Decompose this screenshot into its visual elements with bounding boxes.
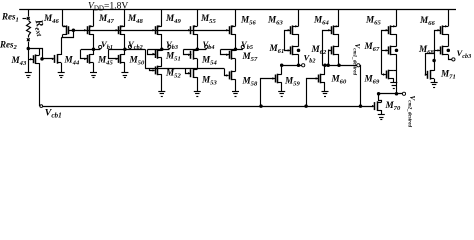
wire M52 gate dogleg	[150, 69, 155, 71]
transistor M58	[229, 71, 231, 79]
transistor M68	[440, 46, 442, 54]
ground M50	[121, 72, 128, 74]
wire M54 drain	[197, 49, 199, 51]
pad Res2	[27, 38, 30, 41]
wire Vb1 port stub	[100, 47, 102, 50]
wire M69 drain tap	[394, 70, 397, 72]
wire M59 gate dogleg	[261, 79, 276, 107]
transistor M53	[190, 69, 192, 77]
node M48 drain junction	[124, 48, 127, 51]
transistor M61	[290, 46, 292, 54]
node M55 drain junction	[196, 48, 199, 51]
wire M43 gate tap	[28, 59, 33, 61]
transistor M69	[386, 71, 388, 79]
wire M49 drain	[161, 34, 163, 49]
wire Vb3 port stub	[169, 48, 171, 49]
wire M68 source	[449, 55, 452, 60]
wire M43 source	[39, 63, 41, 106]
transistor M44	[54, 55, 56, 63]
node M61 source junction	[297, 64, 300, 67]
wire M43 drain	[39, 49, 41, 56]
node M67 gate junction	[395, 49, 398, 52]
wire M64-M62 link	[338, 34, 340, 46]
wire Vb4 port stub	[206, 48, 208, 49]
ground M71	[431, 82, 438, 84]
wire Vb5 node	[221, 49, 243, 51]
ground M58	[232, 91, 239, 93]
wire M64 gate dogleg	[323, 31, 332, 66]
wire M53 gate dogleg	[186, 69, 191, 74]
wire M60 source	[324, 82, 326, 91]
ground M59	[278, 91, 285, 93]
wire M61 source	[298, 54, 300, 65]
node M71 chain junction	[433, 59, 436, 62]
wire M66-M68 link	[448, 34, 450, 46]
wire lower cascode bus	[145, 68, 224, 70]
wire M43 source to port	[38, 106, 41, 108]
wire Vb2 stub	[282, 65, 302, 67]
transistor M50	[118, 55, 120, 63]
wire M44 source	[61, 63, 63, 73]
wire M57-M58 link	[235, 59, 237, 72]
ground M45	[90, 72, 97, 74]
transistor M51	[155, 50, 157, 58]
wire M48 drain	[124, 34, 126, 49]
wire M66 source	[448, 10, 450, 27]
wire M55 source	[197, 10, 199, 27]
node M44 gate junction	[41, 58, 44, 61]
transistor M62	[331, 46, 333, 54]
wire PMOS gate bus	[68, 30, 229, 32]
wire M66 gate dogleg	[435, 31, 441, 51]
wire M46 source	[62, 10, 64, 27]
node M61 gate junction	[297, 49, 300, 52]
wire M49 source	[161, 10, 163, 27]
node Vcb1 port	[40, 105, 43, 108]
wire M57 gate dogleg	[221, 50, 230, 55]
transistor M60	[318, 75, 320, 83]
wire M70 drain	[379, 94, 382, 103]
wire M65-M67 link	[396, 34, 398, 46]
node M70 drain junction	[377, 93, 380, 96]
wire M51 gate dogleg	[148, 50, 156, 55]
wire Vcm1 drop	[360, 66, 361, 107]
wire Vcb2 port stub	[130, 48, 132, 49]
wire Vcm2 node	[379, 93, 403, 95]
pad Res1	[27, 17, 30, 20]
wire M60 gate dogleg	[307, 79, 319, 107]
node M68 gate junction	[447, 49, 450, 52]
node Vb2 port	[302, 64, 305, 67]
transistor M54	[190, 51, 192, 59]
wire Rext node to M44 gate	[29, 49, 54, 59]
wire Vcb2 node	[108, 49, 145, 51]
wire Rext node ground drop	[28, 49, 30, 73]
ground Rext node	[25, 72, 32, 74]
node Vcm1 port	[357, 64, 360, 67]
ground M53	[194, 91, 201, 93]
resistor Rext	[27, 21, 31, 38]
wire M51 drain	[161, 48, 163, 51]
transistor M49	[155, 26, 157, 34]
wire Vb4 node	[183, 49, 206, 51]
node M59 gate junction	[260, 105, 263, 108]
transistor M55	[190, 26, 192, 34]
wire M56 drain	[235, 34, 237, 49]
wire M62 gate dogleg	[329, 51, 332, 66]
transistor M45	[87, 55, 89, 63]
wire M69 source	[393, 78, 395, 82]
node M60 gate junction	[305, 105, 308, 108]
node M47 drain junction	[92, 48, 95, 51]
ground M60	[322, 91, 329, 93]
transistor M65	[388, 26, 390, 34]
wire M65 source	[396, 10, 398, 27]
node Vb5 port	[241, 45, 244, 48]
wire M67 gate tap	[382, 50, 389, 52]
wire M48 source	[124, 10, 126, 27]
node Vb1 port	[99, 45, 102, 48]
wire M55 drain	[197, 34, 199, 49]
wire M63 gate dogleg	[285, 31, 291, 51]
wire Vcm1 node	[322, 65, 356, 67]
wire M45 source	[93, 63, 95, 73]
transistor M71	[427, 71, 429, 79]
wire M58 source	[235, 79, 237, 91]
wire M47 source	[93, 10, 95, 27]
transistor M56	[229, 26, 231, 34]
node Vcm1 rail junction	[359, 105, 362, 108]
transistor M43	[33, 55, 35, 63]
wire M53 source	[197, 77, 199, 91]
wire M45 gate dogleg	[81, 50, 88, 59]
wire M50 source	[124, 63, 126, 73]
ground M52	[158, 91, 165, 93]
node Vcm2 port	[402, 92, 405, 95]
wire Rext top	[28, 10, 30, 17]
wire M67 source chain	[396, 54, 398, 94]
ground M69	[390, 82, 397, 84]
transistor M46	[68, 26, 70, 34]
wire M65 gate dogleg	[382, 31, 389, 75]
wire M64 source	[338, 10, 340, 27]
wire M51-M52 link	[161, 58, 163, 67]
wire M44 drain	[61, 38, 63, 55]
transistor M70	[374, 102, 376, 110]
ground M70	[378, 114, 385, 116]
wire M62 source	[338, 54, 340, 65]
wire M45 drain	[93, 49, 95, 55]
wire M71 gate dogleg	[426, 54, 435, 75]
wire M54-M53 link	[197, 59, 199, 70]
wire Vcb2 to lower bus	[145, 49, 147, 68]
wire M71 source	[434, 79, 436, 83]
wire M46 drain to M44 drain	[61, 37, 62, 39]
wire VDD rail	[19, 9, 456, 11]
wire M68 gate tap	[434, 50, 441, 52]
transistor M64	[331, 26, 333, 34]
wire Rext bottom	[28, 42, 30, 49]
wire M50 drain	[124, 49, 126, 55]
wire M59 source	[281, 82, 283, 91]
transistor M66	[440, 26, 442, 34]
node M49 drain junction	[161, 48, 164, 51]
wire M56 source	[235, 10, 237, 27]
wire M54 gate dogleg	[184, 50, 192, 55]
node M62 gate junction	[327, 64, 330, 67]
wire Vb5 port stub	[242, 47, 244, 50]
wire M59 drain	[281, 65, 283, 74]
wire M70 source	[381, 110, 383, 115]
wire M60 drain	[324, 65, 326, 74]
node M59 drain junction	[280, 64, 283, 67]
node Rext bottom junction	[27, 47, 30, 50]
wire M63 source	[298, 10, 300, 27]
wire Vb3 node	[148, 49, 170, 51]
ground M44	[58, 72, 65, 74]
node M62 source junction	[338, 64, 341, 67]
wire M63-M61 link	[298, 34, 300, 46]
wire M47 drain	[93, 34, 95, 49]
node M60 drain junction	[324, 64, 327, 67]
transistor M59	[275, 75, 277, 83]
node Vcb2 port	[128, 45, 131, 48]
node M56 drain junction	[234, 48, 237, 51]
wire M57 drain	[235, 49, 237, 51]
wire Vcb1 rail	[43, 106, 374, 108]
wire M71 drain chain	[434, 50, 436, 71]
node M46 gate junction	[72, 29, 75, 32]
transistor M63	[290, 26, 292, 34]
transistor M47	[87, 26, 89, 34]
wire Res1 stub	[23, 18, 27, 20]
node chain-Vcm2 junction	[395, 93, 398, 96]
transistor M52	[155, 66, 157, 74]
wire M50 gate dogleg	[109, 50, 119, 59]
transistor M48	[118, 26, 120, 34]
wire M69 gate stub	[382, 74, 386, 76]
transistor M67	[388, 46, 390, 54]
wire M58 gate dogleg	[225, 69, 229, 76]
node Vb4 port	[205, 45, 208, 48]
node Vcb3 port	[452, 58, 455, 61]
transistor M57	[229, 51, 231, 59]
wire Vb1 node	[81, 49, 100, 51]
node Vb3 port	[168, 45, 171, 48]
wire M46 drain loop	[63, 31, 74, 38]
wire M52 source	[161, 74, 163, 91]
